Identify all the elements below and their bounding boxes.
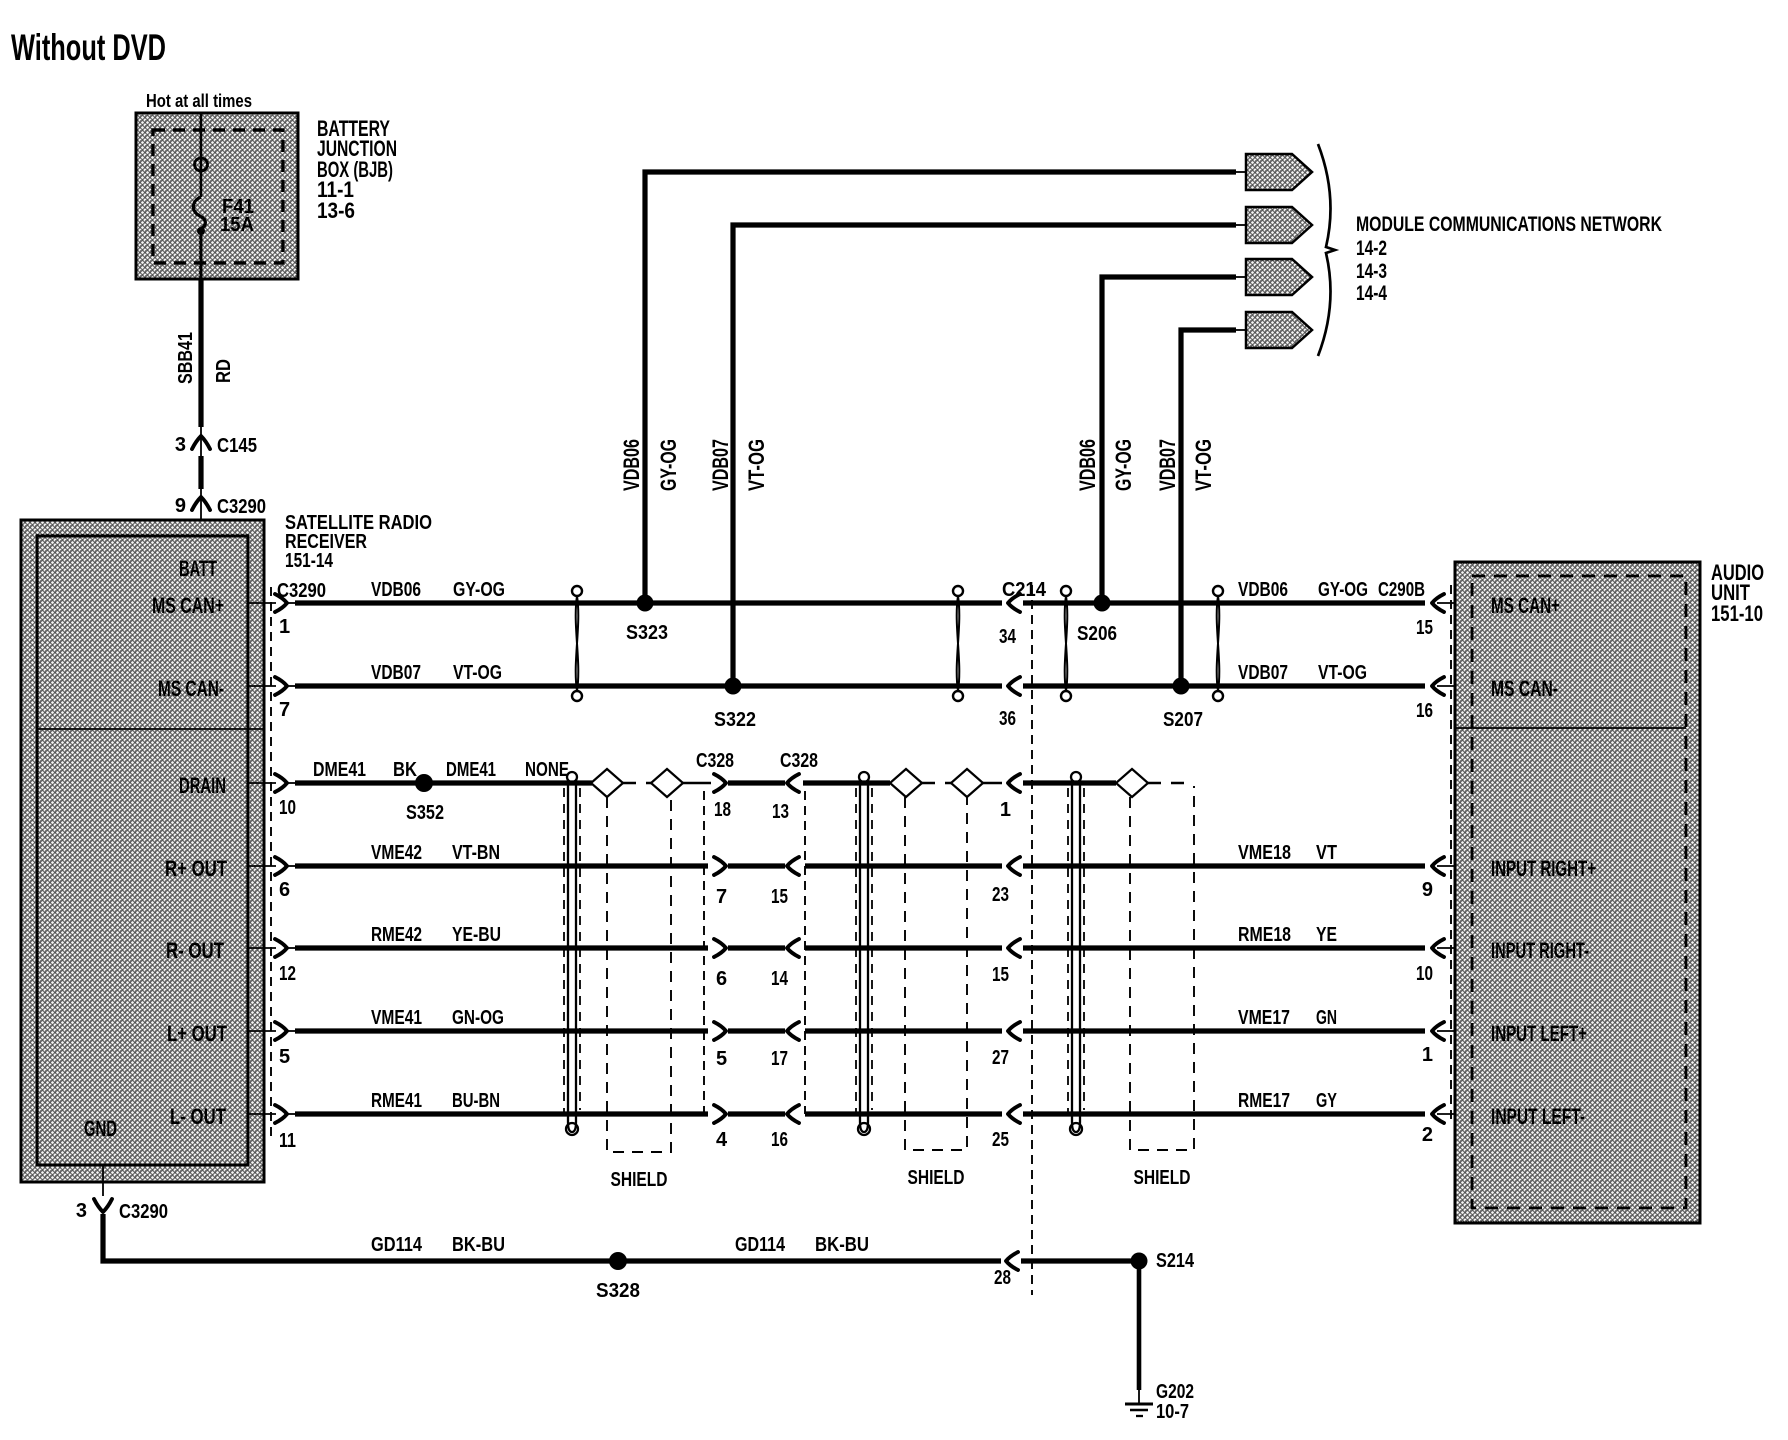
twisted pair loop 1 xyxy=(572,586,582,701)
svg-text:15A: 15A xyxy=(220,214,254,236)
svg-text:VDB07: VDB07 xyxy=(1238,662,1288,684)
svg-text:DME41: DME41 xyxy=(313,759,366,781)
shield box 1 xyxy=(607,797,671,1191)
connector C3290 pin 3 bottom xyxy=(76,1165,168,1223)
brace xyxy=(1318,144,1335,356)
svg-text:17: 17 xyxy=(771,1048,788,1070)
svg-text:RME41: RME41 xyxy=(371,1090,422,1112)
svg-text:13-6: 13-6 xyxy=(317,198,355,223)
wire S214 to ground xyxy=(1137,1261,1142,1390)
svg-text:VDB06: VDB06 xyxy=(619,439,644,491)
svg-text:C328: C328 xyxy=(696,750,734,772)
svg-text:36: 36 xyxy=(999,708,1016,730)
shield loop C xyxy=(1068,772,1084,1135)
audio unit box xyxy=(1455,560,1764,1223)
svg-text:15: 15 xyxy=(771,886,788,908)
svg-text:1: 1 xyxy=(1000,799,1011,821)
svg-text:S206: S206 xyxy=(1077,623,1117,645)
svg-text:GD114: GD114 xyxy=(735,1234,786,1256)
connector C290B dashed line xyxy=(1450,585,1452,1120)
shield box 2 xyxy=(905,797,967,1189)
svg-text:C145: C145 xyxy=(217,435,257,457)
off-page arrow network 2 xyxy=(1246,207,1312,243)
connector C214 arrow pin 1 on drain xyxy=(1000,774,1116,821)
svg-text:3: 3 xyxy=(175,434,186,456)
svg-text:VDB07: VDB07 xyxy=(708,439,733,491)
shield diamond D3 xyxy=(890,769,922,797)
audio unit pin labels xyxy=(1491,593,1596,1129)
shield diamond D2 xyxy=(651,769,683,797)
svg-text:14-3: 14-3 xyxy=(1356,260,1387,283)
svg-text:VT: VT xyxy=(1316,842,1337,864)
svg-text:R+ OUT: R+ OUT xyxy=(165,856,227,881)
svg-text:YE: YE xyxy=(1316,924,1337,946)
svg-text:14-4: 14-4 xyxy=(1356,282,1387,305)
shield diamond D1 xyxy=(591,769,623,797)
wire dashed drain to shield3 xyxy=(1148,782,1194,785)
svg-text:7: 7 xyxy=(279,699,290,721)
svg-text:11: 11 xyxy=(279,1130,296,1152)
svg-text:VT-OG: VT-OG xyxy=(453,662,502,684)
satellite radio receiver box xyxy=(21,512,432,1182)
svg-text:Hot at all times: Hot at all times xyxy=(146,91,252,111)
battery junction box BJB xyxy=(136,113,397,279)
connector C328 dashed lines xyxy=(703,791,705,1114)
wire L+ OUT row xyxy=(295,1007,1472,1031)
wire VDB06 vertical up to network xyxy=(619,172,1247,603)
svg-text:VDB06: VDB06 xyxy=(1238,579,1288,601)
wire dashed drain link xyxy=(623,782,651,785)
svg-text:4: 4 xyxy=(716,1129,728,1151)
svg-text:C214: C214 xyxy=(1002,579,1047,601)
svg-text:G202: G202 xyxy=(1156,1381,1194,1403)
svg-text:INPUT RIGHT-: INPUT RIGHT- xyxy=(1491,938,1589,963)
svg-text:L- OUT: L- OUT xyxy=(170,1104,226,1129)
twisted pair loop 3 xyxy=(1061,586,1071,701)
svg-text:MODULE COMMUNICATIONS NETWORK: MODULE COMMUNICATIONS NETWORK xyxy=(1356,213,1662,236)
twisted pair loop 2 xyxy=(953,586,963,701)
svg-text:6: 6 xyxy=(279,879,290,901)
svg-text:RME18: RME18 xyxy=(1238,924,1291,946)
svg-text:S328: S328 xyxy=(596,1280,640,1302)
wire to C3290 xyxy=(198,456,203,489)
svg-text:GD114: GD114 xyxy=(371,1234,423,1256)
receiver pin stubs, arrows, pin numbers xyxy=(248,594,296,1152)
splice S328 xyxy=(596,1252,640,1302)
connector C214 arrows pins 23/15/27/25 xyxy=(992,857,1020,1151)
svg-text:RD: RD xyxy=(213,359,235,383)
wire VDB07 vertical up to network xyxy=(708,225,1247,686)
splice S322 xyxy=(714,678,756,732)
svg-text:151-14: 151-14 xyxy=(285,550,334,572)
svg-text:VDB06: VDB06 xyxy=(1075,439,1100,491)
svg-text:SHIELD: SHIELD xyxy=(908,1167,965,1189)
wire MS CAN+ row xyxy=(295,579,1472,603)
wire R- OUT row xyxy=(295,924,1472,948)
audio unit arrows pins 15/16/9/10/1/2 xyxy=(1416,594,1444,1146)
off-page arrow network 3 xyxy=(1246,259,1312,295)
svg-text:14: 14 xyxy=(771,968,789,990)
svg-text:VDB06: VDB06 xyxy=(371,579,421,601)
svg-text:NONE: NONE xyxy=(525,759,569,781)
wire DRAIN row DME41 BK / DME41 NONE xyxy=(295,759,592,783)
wire MS CAN- row xyxy=(295,662,1472,686)
svg-text:GND: GND xyxy=(84,1116,117,1141)
svg-text:27: 27 xyxy=(992,1047,1009,1069)
svg-text:25: 25 xyxy=(992,1129,1009,1151)
svg-text:L+ OUT: L+ OUT xyxy=(167,1021,227,1046)
svg-text:VME17: VME17 xyxy=(1238,1007,1290,1029)
wire dashed drain link xyxy=(922,782,951,785)
svg-text:GY-OG: GY-OG xyxy=(453,579,505,601)
svg-text:10: 10 xyxy=(1416,963,1433,985)
svg-text:S214: S214 xyxy=(1156,1250,1195,1272)
connector C214 arrows pins 34/36 xyxy=(999,594,1020,730)
svg-text:MS CAN+: MS CAN+ xyxy=(1491,593,1560,618)
svg-text:MS CAN-: MS CAN- xyxy=(1491,676,1558,701)
svg-text:34: 34 xyxy=(999,626,1017,648)
svg-text:GN: GN xyxy=(1316,1007,1337,1029)
svg-text:18: 18 xyxy=(714,799,731,821)
svg-text:10: 10 xyxy=(279,797,296,819)
connector C214 arrow pin 28 xyxy=(994,1252,1139,1289)
connector C145 pin 3 xyxy=(175,434,257,457)
svg-text:S323: S323 xyxy=(626,622,668,644)
svg-text:VT-OG: VT-OG xyxy=(1318,662,1367,684)
wire L- OUT row xyxy=(295,1090,1472,1114)
twisted pair loop 4 xyxy=(1213,586,1223,701)
svg-text:BU-BN: BU-BN xyxy=(452,1090,500,1112)
splice S352 xyxy=(406,774,444,824)
svg-text:RME17: RME17 xyxy=(1238,1090,1290,1112)
svg-text:SHIELD: SHIELD xyxy=(1134,1167,1191,1189)
svg-text:MS CAN-: MS CAN- xyxy=(158,676,224,701)
svg-text:10-7: 10-7 xyxy=(1156,1401,1189,1423)
wire R+ OUT row xyxy=(295,842,1472,866)
svg-text:VME18: VME18 xyxy=(1238,842,1291,864)
svg-text:INPUT RIGHT+: INPUT RIGHT+ xyxy=(1491,856,1596,881)
svg-text:VDB07: VDB07 xyxy=(1155,439,1180,491)
svg-text:RME42: RME42 xyxy=(371,924,422,946)
svg-text:Without DVD: Without DVD xyxy=(11,27,166,68)
svg-text:SHIELD: SHIELD xyxy=(611,1169,668,1191)
splice S323 xyxy=(626,595,668,645)
svg-text:16: 16 xyxy=(1416,700,1433,722)
svg-text:DRAIN: DRAIN xyxy=(179,773,226,798)
svg-text:MS CAN+: MS CAN+ xyxy=(152,593,224,618)
svg-text:DME41: DME41 xyxy=(446,759,496,781)
off-page arrow network 4 xyxy=(1246,312,1312,348)
svg-text:BATT: BATT xyxy=(179,556,217,581)
svg-text:2: 2 xyxy=(1422,1124,1433,1146)
svg-text:3: 3 xyxy=(76,1200,87,1222)
svg-text:S322: S322 xyxy=(714,709,756,731)
svg-text:GY-OG: GY-OG xyxy=(656,439,681,491)
connector C214 dashed line xyxy=(1031,585,1033,1295)
splice S206 xyxy=(1077,595,1117,646)
shield loop B xyxy=(856,772,872,1135)
shield diamond D4 xyxy=(951,769,983,797)
svg-text:9: 9 xyxy=(1422,879,1433,901)
svg-text:28: 28 xyxy=(994,1267,1011,1289)
svg-text:GY-OG: GY-OG xyxy=(1111,439,1136,491)
svg-text:VT-OG: VT-OG xyxy=(1191,439,1216,491)
svg-text:INPUT LEFT+: INPUT LEFT+ xyxy=(1491,1021,1587,1046)
svg-text:INPUT LEFT-: INPUT LEFT- xyxy=(1491,1104,1585,1129)
svg-text:6: 6 xyxy=(716,968,727,990)
svg-text:7: 7 xyxy=(716,886,727,908)
svg-text:C290B: C290B xyxy=(1378,579,1425,601)
svg-text:C328: C328 xyxy=(780,750,818,772)
ground G202 xyxy=(1125,1381,1194,1423)
svg-text:15: 15 xyxy=(992,964,1009,986)
wire GD114 BK-BU ground run xyxy=(103,1214,1001,1261)
receiver pin labels xyxy=(84,556,227,1141)
svg-text:5: 5 xyxy=(716,1048,727,1070)
connector C328 arrows pins 18/13 on drain xyxy=(696,750,890,823)
svg-text:R- OUT: R- OUT xyxy=(166,938,224,963)
svg-text:S352: S352 xyxy=(406,802,444,824)
svg-text:VT-OG: VT-OG xyxy=(744,439,769,491)
svg-text:S207: S207 xyxy=(1163,709,1203,731)
off-page arrow network 1 xyxy=(1246,154,1312,190)
svg-text:YE-BU: YE-BU xyxy=(452,924,501,946)
svg-text:VT-BN: VT-BN xyxy=(452,842,500,864)
connector C3290 pin 9 xyxy=(175,495,266,536)
splice S214 xyxy=(1131,1250,1195,1272)
svg-text:VME42: VME42 xyxy=(371,842,422,864)
svg-text:C3290: C3290 xyxy=(217,496,266,518)
svg-text:1: 1 xyxy=(1422,1044,1433,1066)
shield box 3 xyxy=(1130,786,1194,1189)
fuse F41 15A xyxy=(193,113,254,279)
svg-text:BK: BK xyxy=(393,759,417,781)
svg-text:SBB41: SBB41 xyxy=(175,332,197,384)
svg-text:9: 9 xyxy=(175,495,186,517)
svg-text:15: 15 xyxy=(1416,617,1433,639)
svg-text:14-2: 14-2 xyxy=(1356,237,1387,260)
svg-text:12: 12 xyxy=(279,963,296,985)
svg-text:C3290: C3290 xyxy=(119,1201,168,1223)
wire SBB41 RD xyxy=(175,279,235,437)
wire VDB07 vertical up to network xyxy=(1155,330,1247,686)
connector C328 arrows pins on audio rows xyxy=(714,857,799,1151)
connector C3290 dashed line xyxy=(270,587,272,1140)
svg-text:5: 5 xyxy=(279,1046,290,1068)
svg-text:BK-BU: BK-BU xyxy=(815,1234,869,1256)
svg-text:GN-OG: GN-OG xyxy=(452,1007,504,1029)
svg-text:13: 13 xyxy=(772,801,789,823)
wire VDB06 vertical up to network xyxy=(1075,277,1247,603)
module communications network label xyxy=(1356,213,1662,305)
splice S207 xyxy=(1163,678,1203,732)
wire drain to C214 xyxy=(983,782,1002,785)
svg-text:VDB07: VDB07 xyxy=(371,662,421,684)
shield diamond D5 xyxy=(1116,769,1148,797)
svg-text:23: 23 xyxy=(992,884,1009,906)
svg-text:16: 16 xyxy=(771,1129,788,1151)
svg-text:GY-OG: GY-OG xyxy=(1318,579,1368,601)
svg-text:BK-BU: BK-BU xyxy=(452,1234,505,1256)
svg-text:GY: GY xyxy=(1316,1090,1337,1112)
shield loop A xyxy=(564,772,580,1135)
svg-text:151-10: 151-10 xyxy=(1711,601,1763,626)
svg-text:VME41: VME41 xyxy=(371,1007,422,1029)
wire drain to C328 xyxy=(683,782,711,785)
svg-text:1: 1 xyxy=(279,616,290,638)
